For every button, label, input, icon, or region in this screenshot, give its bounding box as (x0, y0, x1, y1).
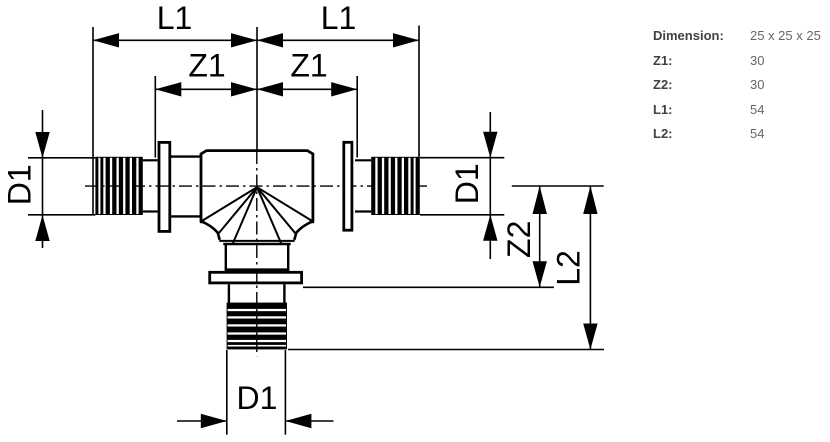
left pipe section flange-to-body (171, 157, 200, 217)
dimension center extension line (256, 27, 258, 150)
dimension D1 bottom extension lines (227, 350, 286, 435)
cone fan lines (202, 187, 312, 243)
dimension Z2/L2 top extension line (512, 185, 604, 187)
branch neck (225, 244, 290, 270)
label L2 (rotated) (551, 250, 587, 286)
label L1 left (157, 0, 193, 36)
svg-text:L1: L1 (157, 0, 193, 36)
centerline vertical branch (256, 151, 258, 356)
dimension line L2 (583, 186, 597, 350)
svg-text:Z2: Z2 (501, 221, 537, 258)
left fillet to branch cone (202, 222, 219, 240)
svg-text:L1: L1 (321, 0, 357, 36)
dimension Z1 extension line right (356, 76, 358, 158)
dimension line D1 right (483, 112, 497, 259)
right pipe section flange-to-ribs (355, 160, 371, 211)
dimension L1 extension line right (418, 26, 420, 216)
label D1 left (rotated) (2, 164, 38, 205)
dimension line Z1 (155, 82, 357, 96)
dimension line L1 (93, 33, 419, 47)
svg-text:Z1: Z1 (290, 48, 327, 84)
spec table (653, 24, 821, 147)
branch collar (229, 284, 285, 303)
right fillet to branch cone (294, 222, 311, 240)
label Z2 (rotated) (501, 221, 537, 258)
right ribbed spigot (371, 157, 418, 215)
left pipe section ribs-to-flange (143, 160, 158, 211)
dimension line D1 bottom (177, 414, 334, 428)
dimension Z2 bottom extension line (303, 286, 554, 288)
branch cone rim (219, 241, 294, 244)
left ribbed spigot (95, 157, 142, 215)
right flange (344, 142, 352, 230)
label Z1 left (188, 48, 225, 84)
dimension line Z2 (533, 186, 547, 287)
svg-text:L2: L2 (551, 250, 587, 286)
label L1 right (321, 0, 357, 36)
dimension L2 bottom extension line (288, 349, 604, 351)
svg-text:D1: D1 (2, 164, 38, 205)
dimension line D1 left (35, 110, 49, 248)
label Z1 right (290, 48, 327, 84)
label D1 bottom (237, 380, 278, 416)
branch flange (210, 272, 302, 283)
dimension Z1 extension line left (154, 76, 156, 158)
svg-text:Z1: Z1 (188, 48, 225, 84)
branch ribbed spigot (227, 303, 287, 350)
dimension L1 extension line left (92, 27, 94, 215)
tee body (200, 151, 314, 222)
svg-text:D1: D1 (449, 163, 485, 204)
dimension D1 left extension lines (28, 158, 95, 215)
dimension D1 right extension lines (420, 158, 504, 215)
left flange (159, 142, 170, 231)
label D1 right (rotated) (449, 163, 485, 204)
svg-text:D1: D1 (237, 380, 278, 416)
centerline horizontal (85, 185, 429, 187)
